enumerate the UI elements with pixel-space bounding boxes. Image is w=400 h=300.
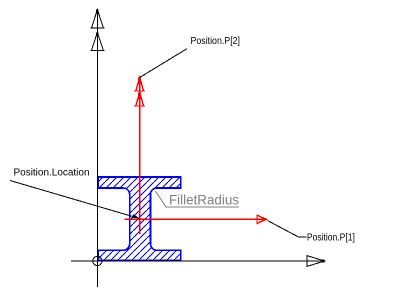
X axis arrowhead [307, 255, 325, 267]
red arrowhead H [257, 214, 266, 224]
Y axis arrowhead 2 [90, 32, 104, 50]
svg-text:Position.P[1]: Position.P[1] [307, 232, 355, 243]
red arrowhead V2 [134, 93, 145, 107]
svg-text:Position.P[2]: Position.P[2] [191, 36, 241, 47]
label Position.P[1] [307, 232, 355, 243]
origin circle [93, 256, 102, 265]
I-beam hatching [90, 170, 190, 270]
I-beam profile outline [98, 177, 181, 261]
Y axis [96, 10, 98, 287]
leader Position.Location [10, 181, 140, 219]
label Position.P[2] [191, 36, 241, 47]
red construction line horizontal (P1 direction) [124, 218, 263, 220]
leader Position.P[1] [268, 221, 307, 237]
leader FilletRadius [155, 191, 239, 207]
label Position.Location [14, 168, 90, 179]
X axis [71, 260, 322, 262]
leader Position.P[2] [140, 49, 187, 77]
red construction line vertical (P2 direction) [139, 79, 141, 234]
red arrowhead V1 [134, 78, 145, 92]
svg-text:Position.Location: Position.Location [14, 168, 90, 179]
Y axis arrowhead 1 [90, 10, 104, 28]
label FilletRadius [169, 192, 239, 208]
svg-text:FilletRadius: FilletRadius [169, 192, 239, 208]
